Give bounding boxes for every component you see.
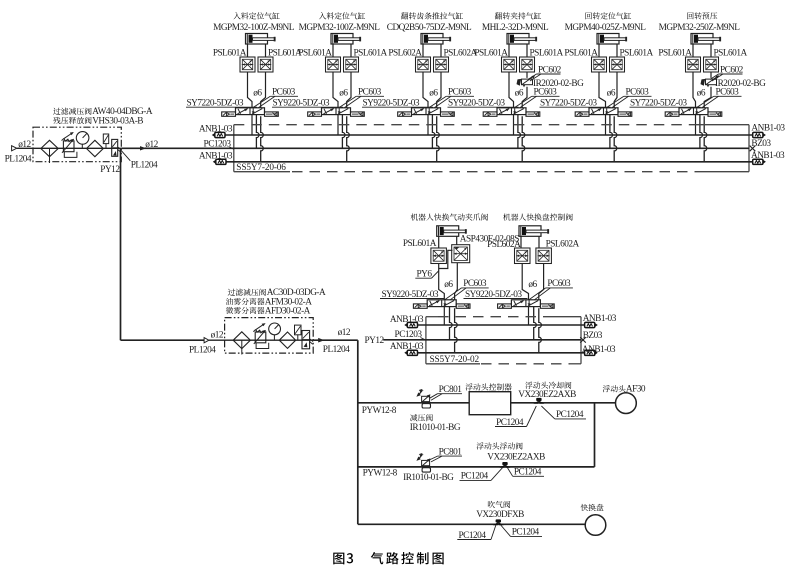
svg-text:MGPM32-250Z-M9NL: MGPM32-250Z-M9NL <box>659 23 741 33</box>
solenoid valve SY7220-5DZ-03 (G1) <box>236 108 265 115</box>
svg-text:PL1204: PL1204 <box>131 160 158 170</box>
quick-change plate port (circle) <box>585 515 606 536</box>
svg-text:PL1204: PL1204 <box>323 345 350 355</box>
wire G5 cylinder right port <box>616 44 618 57</box>
svg-text:PYW12-8: PYW12-8 <box>362 406 397 416</box>
flow control valve PSL601A (G1 left) <box>240 57 255 72</box>
label cylinder title 翻转夹持气缸 (G4) <box>495 12 541 19</box>
flow control valve PSL601A (G6 right) <box>704 57 719 72</box>
filter AW40 (prep1) <box>41 140 58 156</box>
mid bus line 3 <box>418 352 585 354</box>
svg-text:ANB1-03: ANB1-03 <box>582 345 616 355</box>
leader PL1204 (prep1 outlet) <box>122 151 131 161</box>
solenoid valve SY7220-5DZ-03 (G6) <box>679 108 708 115</box>
wire G8 to mid bus line2 <box>534 307 537 340</box>
regulator IR2020-02-BG (G4) <box>522 79 533 85</box>
wire G6 to bus line 1 <box>695 115 697 135</box>
filter/separator AFM30 (prep2) <box>279 332 295 348</box>
leader PC603 (G4) <box>515 96 532 107</box>
wire G5 cylinder left port <box>598 44 600 57</box>
air prep unit 1 enclosure (dash-dot) <box>33 127 121 162</box>
cylinder MHL2-32D-M9NL (G4) <box>507 34 529 45</box>
svg-text:ANB1-03: ANB1-03 <box>390 342 424 352</box>
wire G7 B-line <box>455 263 458 300</box>
cylinder MGPM32-100Z-M9NL (G2) <box>331 34 353 45</box>
svg-text:PY12: PY12 <box>365 336 385 346</box>
pressure gauge (prep2) <box>269 323 281 335</box>
label cylinder title 翻转齿条推拉气缸 (G3) <box>401 12 463 19</box>
wire G1 to bus line 3 <box>261 116 264 162</box>
svg-text:BZ03: BZ03 <box>751 139 771 149</box>
wire G6 cylinder left port <box>692 44 694 57</box>
wire G3 cylinder right port <box>440 44 442 57</box>
filter/separator (prep1) <box>87 140 104 156</box>
svg-text:ANB1-03: ANB1-03 <box>199 151 233 161</box>
regulator IR1010-01-BG (row1) <box>422 396 430 401</box>
residual relief valve (prep2) <box>302 331 310 349</box>
float head controller box <box>469 392 511 415</box>
leader PC603 (G8) <box>529 288 546 300</box>
leader PC1204 (row2 left) <box>491 468 503 481</box>
flow control valve ASP430F (G7 right) <box>452 245 470 263</box>
label 过滤减压阀AW40-04DBG-A <box>53 108 91 115</box>
regulator IR2020-02-BG (G6) <box>706 79 717 85</box>
svg-text:MHL2-32D-M9NL: MHL2-32D-M9NL <box>482 23 549 33</box>
wire G8 right port <box>538 236 540 248</box>
svg-text:VX230EZ2AXB: VX230EZ2AXB <box>487 452 545 462</box>
wire G1 cylinder left port <box>247 44 249 57</box>
svg-text:ø6: ø6 <box>429 88 438 98</box>
wire G1 A-line <box>248 72 253 108</box>
float head AF30 port (circle) <box>616 393 637 414</box>
wire G1 B-line <box>261 72 266 108</box>
wire G5 to bus line 3 <box>614 116 617 162</box>
flow control valve PSL601A (G7 left) <box>431 248 447 264</box>
supply trunk drop (x=120.5) <box>120 148 122 340</box>
svg-text:ø6: ø6 <box>607 88 616 98</box>
bus line 1 (exhaust ANB1-03) <box>225 134 753 136</box>
label 过滤减压阀AC30D-03DG-A <box>228 289 266 296</box>
supply branch row2 <box>358 466 595 468</box>
inlet arrow (prep2) <box>204 338 209 343</box>
wire G7 to mid bus line2 <box>450 307 453 340</box>
supply branch row3 <box>358 523 586 525</box>
svg-text:ANB1-03: ANB1-03 <box>199 124 233 134</box>
leader PC1204 (row3 left) <box>491 525 496 540</box>
svg-text:ø6: ø6 <box>528 280 537 290</box>
svg-text:ANB1-03: ANB1-03 <box>751 151 785 161</box>
silencer ANB1-03 (top bus line3 left) <box>216 159 226 164</box>
leader PC602 (G6) <box>710 74 719 80</box>
wire G2 to bus line 2 <box>342 115 345 149</box>
wire G7 left port <box>438 236 440 248</box>
flow control valve PSL601A (G2 right) <box>344 57 359 72</box>
wire G4 cylinder left port <box>508 44 510 57</box>
wire G3 A-line <box>423 72 428 108</box>
solenoid valve SY7220-5DZ-03 (G5) <box>589 108 618 115</box>
label cylinder title 入料定位气缸 (G2) <box>319 12 365 19</box>
svg-text:ANB1-03: ANB1-03 <box>751 123 785 133</box>
supply line PY12 into mid bus (line2) <box>383 339 581 341</box>
wire G4 cylinder right port <box>526 44 528 57</box>
silencer ANB1-03 (top bus line1 left) <box>215 132 225 137</box>
leader PC1203 (top bus) <box>230 147 234 149</box>
air prep unit 2 enclosure (dash-dot) <box>225 318 314 354</box>
wire G8 A-line <box>522 264 528 300</box>
silencer ANB1-03 (mid bus line1 right) <box>585 322 595 327</box>
silencer ANB1-03 (top bus line3 right) <box>753 159 763 164</box>
wire G7 ASP feed branch <box>439 250 453 268</box>
supply branch row1 <box>358 402 469 404</box>
solenoid valve VX230DFXB blow <box>496 519 501 522</box>
svg-text:MGPM32-100Z-M9NL: MGPM32-100Z-M9NL <box>213 23 295 33</box>
wire G6 to bus line 3 <box>704 116 707 162</box>
wire G2 to bus line 3 <box>347 116 350 162</box>
flow control valve PSL601A (G4 right) <box>520 57 535 72</box>
mid bus line 1 <box>418 324 585 326</box>
leader PC801 (row1) <box>430 394 438 399</box>
leader PC603 (G6) <box>697 96 714 107</box>
dryer AFD30 (prep2) <box>295 325 302 335</box>
wire PY6 connect (G7) <box>432 271 439 278</box>
svg-text:ø6: ø6 <box>253 88 262 98</box>
manifold enclosure SS5Y7-20-02 (dashed) <box>425 317 427 364</box>
flow control valve PSL601A (G5 right) <box>610 57 625 72</box>
flow arrow ø12 (prep1 outlet) <box>140 146 146 150</box>
svg-text:VX230DFXB: VX230DFXB <box>476 510 524 520</box>
supply line prep2 to junction <box>313 339 358 341</box>
silencer ANB1-03 (mid bus line1 left) <box>407 322 417 327</box>
wire G1 cylinder right port <box>265 44 267 57</box>
wire G8 to mid bus line1 <box>528 307 530 325</box>
wire G6 cylinder right port <box>710 44 712 57</box>
wire G6 B-line lower <box>704 87 711 108</box>
leader PC1204 (row1 left) <box>527 406 537 427</box>
label cylinder title 回转预压 (G6) <box>687 12 717 19</box>
flow control valve PSL601A (G6 left) <box>686 57 701 72</box>
wire G1 to bus line 2 <box>256 115 259 149</box>
cylinder MGPM32-250Z-M9NL (G6) <box>691 34 713 45</box>
solenoid valve VX230EZ2AXB cooling <box>536 398 541 401</box>
wire G4 B-line upper <box>526 72 528 78</box>
leader PC603 (G5) <box>607 96 624 107</box>
label 浮动头控制器 <box>465 383 511 390</box>
leader PC1204 (row3 right) <box>501 525 511 536</box>
label cylinder title 回转定位气缸 (G5) <box>585 12 631 19</box>
wire G3 B-line <box>437 72 441 108</box>
leader PC1204 (row1 right) <box>541 406 554 419</box>
svg-text:PL1204: PL1204 <box>5 155 32 165</box>
regulator IR1010-01-BG (row2) <box>422 460 430 465</box>
wire G5 B-line <box>614 72 617 108</box>
svg-text:AFD30-02-A: AFD30-02-A <box>265 306 311 316</box>
cylinder MGPM32-100Z-M9NL (G1) <box>246 34 268 45</box>
svg-text:ø6: ø6 <box>339 88 348 98</box>
plug X (mid bus line2 right) <box>580 337 586 342</box>
flow arrow ø12 (prep2 outlet) <box>318 338 324 343</box>
svg-text:SS5Y7-20-06: SS5Y7-20-06 <box>236 163 286 173</box>
wire G7 to mid bus line1 <box>443 307 445 325</box>
svg-text:ANB1-03: ANB1-03 <box>583 314 617 324</box>
label cylinder title 入料定位气缸 (G1) <box>233 12 279 19</box>
leader PC1204 (row2 right) <box>507 468 512 477</box>
solenoid valve SY9220-5DZ-03 (G2) <box>322 108 351 115</box>
label 浮动头AF30 <box>603 385 626 392</box>
svg-text:SS5Y7-20-02: SS5Y7-20-02 <box>430 355 480 365</box>
wire G4 A-line <box>509 72 514 108</box>
wire G4 to bus line 3 <box>522 116 525 162</box>
silencer ANB1-03 (mid bus line3 right) <box>585 350 595 355</box>
svg-text:PYW12-8: PYW12-8 <box>363 469 398 479</box>
solenoid valve SY9220-5DZ-03 (G8) <box>511 300 540 307</box>
regulator (prep1) <box>63 141 74 152</box>
cylinder MGPM40-025Z-M9NL (G5) <box>597 34 619 45</box>
wire G4 to bus line 1 <box>513 115 515 135</box>
wire G5 to bus line 1 <box>605 115 607 135</box>
flow control valve PSL601A (G2 left) <box>326 57 341 72</box>
label 浮动头冷却阀 <box>525 382 571 389</box>
wire G2 cylinder right port <box>350 44 352 57</box>
supply trunk drop (x=357.8) <box>357 340 359 524</box>
leader PC603 (G2) <box>339 96 356 107</box>
pressure gauge (prep1) <box>76 132 89 145</box>
inlet arrow (prep1) <box>12 146 17 151</box>
label 微雾分离器AFD30-02-A <box>226 307 265 314</box>
wire G3 to bus line 3 <box>437 116 440 162</box>
dryer (prep1) <box>103 134 108 144</box>
silencer ANB1-03 (mid bus line3 left) <box>407 350 417 355</box>
solenoid valve SY9220-5DZ-03 (G4) <box>497 108 526 115</box>
wire G2 A-line <box>333 72 338 108</box>
svg-text:PSL602A: PSL602A <box>487 240 521 250</box>
cylinder CDQ2B50-75DZ-M9NL (G3) <box>421 34 443 45</box>
wire G1 to bus line 1 <box>251 115 253 135</box>
svg-text:MGPM40-025Z-M9NL: MGPM40-025Z-M9NL <box>565 23 647 33</box>
svg-text:ø6: ø6 <box>515 88 524 98</box>
flow control valve PSL602A (G3 left) <box>416 57 431 72</box>
solenoid valve SY9220-5DZ-03 (G7) <box>427 300 456 307</box>
wire G4 B-line lower <box>522 87 527 108</box>
wire G2 to bus line 1 <box>337 115 339 135</box>
svg-text:PC1203: PC1203 <box>395 330 423 340</box>
wire G7 right port <box>456 236 458 244</box>
wire prep2 internal <box>209 339 313 341</box>
flow control valve PSL602A (G8 left) <box>515 248 531 264</box>
label valve title 机器人快换盘控制阀 (G8) <box>503 213 573 220</box>
label valve title 机器人快换气动夹爪阀 (G7) <box>411 213 488 220</box>
wire G3 to bus line 1 <box>427 115 429 135</box>
flow control valve PSL602A (G8 right) <box>536 248 552 264</box>
wire G5 to bus line 2 <box>610 115 613 149</box>
leader PC602 (G4) <box>528 74 537 80</box>
bus line 3 (exhaust ANB1-03) <box>226 161 753 163</box>
flow control valve PSL602A (G3 right) <box>434 57 449 72</box>
label 吹气阀 <box>488 501 510 508</box>
filter AC30D (prep2) <box>233 332 250 349</box>
svg-text:CDQ2B50-75DZ-M9NL: CDQ2B50-75DZ-M9NL <box>387 23 472 33</box>
solenoid valve SY9220-5DZ-03 (G3) <box>412 108 441 115</box>
supply line PC1203 (prep1 to top bus, bus line2) <box>121 147 749 149</box>
leader PC603 (G1) <box>253 96 270 107</box>
svg-text:ø6: ø6 <box>697 88 706 98</box>
solenoid valve VX230EZ2AXB float <box>502 462 507 465</box>
label 快换盘 <box>581 504 604 511</box>
wire prep1 inlet <box>17 147 41 149</box>
wire trunk to prep2 <box>121 339 205 341</box>
wire controller to AF30 <box>511 402 616 404</box>
wire G3 to bus line 2 <box>432 115 435 149</box>
wire G8 B-line <box>539 264 544 300</box>
label 油雾分离器AFM30-02-A <box>226 298 265 305</box>
svg-text:BZ03: BZ03 <box>583 331 603 341</box>
wire G6 to bus line 2 <box>700 115 703 149</box>
svg-text:MGPM32-100Z-M9NL: MGPM32-100Z-M9NL <box>299 23 381 33</box>
label 残压释放阀VHS30-03A-B <box>53 117 91 124</box>
wire G3 cylinder left port <box>422 44 424 57</box>
regulator (prep2) <box>255 332 266 343</box>
wire G8 left port <box>520 236 522 248</box>
svg-text:ø12: ø12 <box>211 330 224 340</box>
svg-text:VX230EZ2AXB: VX230EZ2AXB <box>518 390 576 400</box>
wire G6 B-line upper <box>710 72 712 78</box>
residual relief valve VHS30 (prep1) <box>112 139 118 156</box>
wire G2 cylinder left port <box>332 44 334 57</box>
silencer ANB1-03 (top bus line1 right) <box>753 132 763 137</box>
pilot cylinder symbol (G8) <box>519 226 541 237</box>
plug X (top bus line2 right) <box>750 146 756 152</box>
svg-text:ANB1-03: ANB1-03 <box>390 315 424 325</box>
leader PC801 (row2) <box>430 456 438 460</box>
label 浮动头浮动阀 <box>476 442 522 449</box>
flow control valve PSL601A (G1 right) <box>258 57 273 72</box>
leader PC1203 (mid bus) <box>421 338 426 341</box>
svg-text:VHS30-03A-B: VHS30-03A-B <box>92 116 143 126</box>
svg-text:PL1204: PL1204 <box>189 345 216 355</box>
label 减压阀 (row1) <box>410 414 433 421</box>
svg-text:IR1010-01-BG: IR1010-01-BG <box>403 473 454 483</box>
flow control valve PSL601A (G4 left) <box>502 57 517 72</box>
leader PC603 (G3) <box>429 96 446 107</box>
svg-text:ø6: ø6 <box>444 280 453 290</box>
wire G8 to mid bus line3 <box>539 308 542 353</box>
wire G2 B-line <box>347 72 351 108</box>
wire G5 A-line <box>599 72 606 108</box>
wire G4 to bus line 2 <box>518 115 521 149</box>
wire G7 A-line <box>439 264 445 300</box>
figure caption 图3 <box>333 553 344 565</box>
riser row2 to row1 <box>594 403 596 467</box>
svg-text:PY12: PY12 <box>100 165 120 175</box>
flow control valve PSL601A (G5 left) <box>592 57 607 72</box>
svg-text:IR1010-01-BG: IR1010-01-BG <box>410 423 461 433</box>
manifold enclosure SS5Y7-20-06 (dashed) <box>233 125 235 172</box>
figure caption 气路控制图 <box>371 552 444 564</box>
wire G6 A-line <box>693 72 696 108</box>
leader PC603 (G7) <box>445 288 462 300</box>
wire prep1 internal <box>41 147 122 149</box>
wire G7 to mid bus line3 <box>455 308 458 353</box>
svg-text:ø12: ø12 <box>338 328 351 338</box>
pilot cylinder symbol (G7) <box>437 226 459 237</box>
